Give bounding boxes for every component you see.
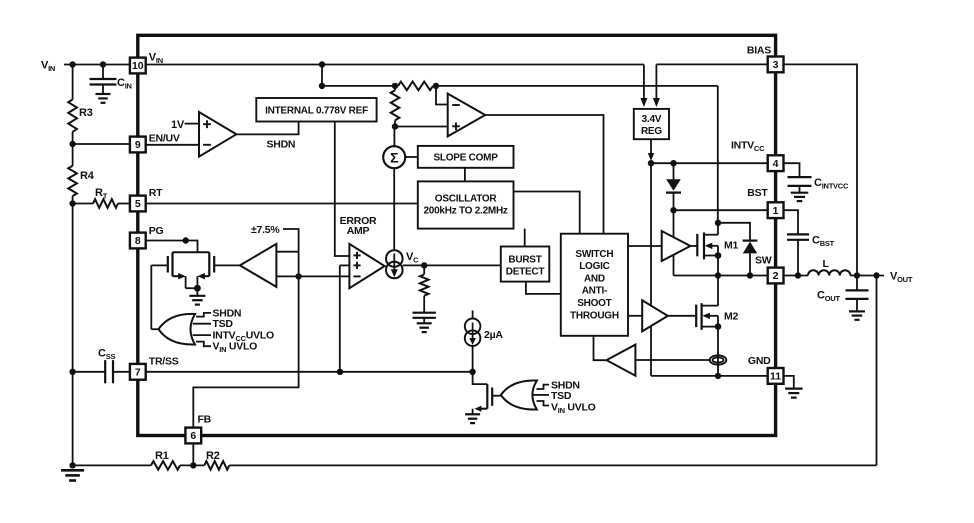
wire driver M2 to GND bbox=[650, 326, 652, 376]
wire pin 9 to comparator bbox=[146, 144, 199, 146]
capacitor VC compensation bbox=[413, 296, 436, 323]
wire sigma to slope comp bbox=[405, 156, 418, 158]
wire VOUT sense riser bbox=[876, 276, 878, 466]
wire pin 5 RT to oscillator bbox=[146, 203, 418, 205]
svg-text:M2: M2 bbox=[724, 311, 738, 323]
label VC bbox=[406, 251, 419, 265]
svg-text:4: 4 bbox=[773, 158, 779, 170]
wire BIAS to VOUT bbox=[784, 64, 858, 275]
label TSD fault bbox=[213, 318, 234, 330]
wire SHDN input bbox=[196, 313, 211, 317]
label pin BST bbox=[747, 187, 768, 199]
label L bbox=[823, 258, 830, 270]
wire sense rail to M1 drain bbox=[717, 86, 719, 223]
svg-text:SHDN: SHDN bbox=[267, 139, 296, 151]
op-amp error amplifier bbox=[349, 244, 384, 288]
junction EN divider bbox=[69, 141, 75, 147]
wire VIN rail bbox=[146, 64, 644, 66]
junction sense res top bbox=[392, 83, 398, 89]
pin 7 TR/SS bbox=[130, 364, 146, 380]
or-gate clamp fault bbox=[501, 380, 537, 409]
label R1 bbox=[155, 450, 169, 462]
resistor VC compensation bbox=[420, 265, 429, 295]
svg-text:SW: SW bbox=[755, 255, 772, 267]
resistor sense divider bbox=[391, 86, 400, 127]
wire sense amp to switch logic bbox=[594, 336, 607, 360]
wire CSS to pin 7 bbox=[113, 371, 130, 373]
wire oscillator to switch logic bbox=[514, 192, 580, 234]
junction slope sum node bbox=[392, 123, 398, 129]
svg-text:7: 7 bbox=[135, 366, 141, 378]
summer sigma bbox=[383, 146, 405, 168]
label CINTVCC bbox=[814, 177, 849, 191]
svg-text:LOGIC: LOGIC bbox=[579, 261, 609, 272]
wire M1 body diode top bbox=[718, 223, 750, 240]
svg-text:6: 6 bbox=[190, 430, 196, 442]
comparator EN/UV bbox=[199, 112, 236, 157]
label R3 bbox=[79, 107, 93, 119]
svg-text:BST: BST bbox=[747, 187, 768, 199]
wire VIN input bbox=[64, 64, 130, 66]
svg-text:GND: GND bbox=[748, 355, 771, 367]
label SHDN fault bbox=[213, 307, 242, 319]
label SW bbox=[755, 255, 772, 267]
svg-text:Σ: Σ bbox=[390, 150, 398, 166]
junction SW M1M2 bbox=[715, 272, 721, 278]
wire sigma to VC source bbox=[393, 168, 395, 250]
wire BIAS to regulator bbox=[653, 64, 768, 107]
block SLOPE COMP bbox=[418, 146, 514, 168]
wire clamp SHDN input bbox=[537, 385, 550, 389]
svg-text:8: 8 bbox=[135, 235, 141, 247]
wire INTVCC UVLO input bbox=[193, 334, 211, 336]
block OSCILLATOR bbox=[418, 181, 514, 228]
svg-text:R3: R3 bbox=[79, 107, 93, 119]
pin 2 SW bbox=[768, 268, 784, 284]
or-gate PG fault bbox=[159, 314, 196, 345]
label pin INTVCC bbox=[731, 140, 765, 154]
current source VC output bbox=[386, 250, 403, 278]
wire BST bbox=[674, 209, 768, 211]
svg-text:INTERNAL 0.778V REF: INTERNAL 0.778V REF bbox=[265, 106, 368, 117]
svg-text:SLOPE COMP: SLOPE COMP bbox=[434, 153, 499, 164]
wire INTVCC to driver M2 bbox=[650, 163, 652, 305]
wire burst detect to switch logic bbox=[526, 282, 561, 294]
pin 1 BST bbox=[768, 202, 784, 218]
junction TRSS erroramp bbox=[337, 369, 343, 375]
svg-text:10: 10 bbox=[132, 60, 144, 72]
pin 5 RT bbox=[130, 196, 146, 212]
wire fb junction riser bbox=[298, 252, 300, 277]
junction CSS bbox=[69, 369, 75, 375]
pin 8 PG bbox=[130, 233, 146, 249]
ground discharge NMOS bbox=[465, 414, 480, 423]
svg-text:ANTI-: ANTI- bbox=[582, 286, 607, 297]
wire TSD input bbox=[193, 323, 211, 325]
svg-text:2µA: 2µA bbox=[484, 329, 503, 341]
transistor discharge NMOS bbox=[473, 372, 493, 414]
wire comp minus bbox=[436, 86, 448, 105]
current source 2uA bbox=[465, 311, 481, 347]
ground pin11 bbox=[785, 389, 803, 398]
capacitor COUT bbox=[846, 276, 869, 311]
wire fb to error amp bbox=[299, 275, 350, 277]
wire trss to error amp bbox=[340, 265, 350, 371]
resistor RT bbox=[93, 199, 118, 208]
wire regulator output bbox=[648, 139, 654, 161]
junction INTVCC rail bbox=[648, 160, 654, 166]
svg-text:3.4V: 3.4V bbox=[642, 114, 662, 125]
svg-text:±7.5%: ±7.5% bbox=[251, 224, 280, 236]
junction VIN rail jumper top bbox=[319, 61, 325, 67]
svg-text:DETECT: DETECT bbox=[506, 267, 545, 278]
label pin GND bbox=[748, 355, 771, 367]
junction VC bbox=[421, 262, 427, 268]
svg-text:2: 2 bbox=[773, 270, 779, 282]
junction M1 drain bbox=[715, 220, 721, 226]
label pin VIN bbox=[149, 52, 163, 66]
svg-text:PG: PG bbox=[149, 225, 164, 237]
junction sense rail left bbox=[319, 83, 325, 89]
label pin RT bbox=[149, 187, 163, 199]
wire INTVCC bbox=[651, 162, 768, 164]
wire CSS left bbox=[73, 371, 106, 373]
junction VOUT bbox=[854, 272, 860, 278]
junction M2 source bbox=[715, 323, 722, 330]
pin 6 FB bbox=[185, 428, 201, 444]
wire BST to driver M1 bbox=[673, 210, 675, 237]
wire TRSS bbox=[146, 371, 473, 373]
label clamp SHDN bbox=[551, 380, 580, 392]
wire SW out bbox=[784, 275, 885, 277]
label R4 bbox=[80, 170, 95, 182]
wire 7.5% reference bbox=[276, 229, 298, 252]
junction VIN/CIN bbox=[100, 61, 106, 67]
svg-text:OSCILLATOR: OSCILLATOR bbox=[435, 194, 498, 205]
wire 2uA to TRSS bbox=[472, 346, 474, 372]
wire VIN to regulator bbox=[640, 65, 647, 108]
junction bottom-left ground bbox=[69, 462, 75, 468]
wire R1 to FB node bbox=[180, 464, 204, 466]
label pin FB bbox=[198, 414, 212, 426]
label CSS bbox=[98, 348, 115, 362]
wire R2 to VOUT sense bbox=[229, 464, 876, 466]
label CBST bbox=[812, 235, 835, 249]
wire CBST to SW bbox=[797, 240, 799, 276]
junction GND M2 bbox=[715, 373, 721, 379]
node VIN input label bbox=[41, 60, 55, 74]
svg-text:BIAS: BIAS bbox=[747, 45, 771, 57]
svg-text:AND: AND bbox=[584, 273, 605, 284]
amplifier driver M1 bbox=[662, 231, 691, 261]
svg-text:9: 9 bbox=[135, 139, 141, 151]
junction SW CBST bbox=[795, 272, 801, 278]
wire SW bbox=[674, 275, 768, 277]
junction VIN/R3 bbox=[69, 61, 75, 67]
svg-text:M1: M1 bbox=[724, 240, 738, 252]
wire left rail upper bbox=[72, 65, 74, 100]
junction M1 source bbox=[715, 252, 722, 259]
wire M1 gate bbox=[690, 245, 697, 247]
label VOUT bbox=[890, 271, 913, 285]
wire pin 8 PG bbox=[146, 240, 186, 242]
wire SHDN out bbox=[236, 122, 298, 135]
wire driver M1 to SW bbox=[673, 255, 675, 276]
ground VC compensation bbox=[417, 323, 432, 332]
ground bottom-left bbox=[61, 470, 84, 480]
svg-text:RT: RT bbox=[149, 187, 163, 199]
wire fb net down bbox=[193, 276, 298, 427]
wire RT resistor to pin 5 bbox=[118, 203, 130, 205]
wire PG gate lead left bbox=[151, 265, 168, 329]
wire clamp VIN UVLO input bbox=[537, 401, 550, 406]
label R2 bbox=[206, 450, 220, 462]
svg-text:R4: R4 bbox=[80, 170, 95, 182]
wire RT node to RT resistor bbox=[73, 203, 93, 205]
label VIN UVLO bbox=[213, 341, 258, 355]
transistor PG pair bbox=[168, 252, 214, 288]
wire left rail lower bbox=[72, 204, 74, 466]
junction sense comp minus bbox=[433, 83, 439, 89]
svg-text:TSD: TSD bbox=[551, 390, 572, 402]
label 1V bbox=[171, 119, 185, 131]
wire clamp gate bbox=[492, 395, 501, 397]
amplifier driver M2 bbox=[642, 300, 668, 331]
diode M1 body bbox=[743, 241, 758, 276]
label INTVCC UVLO bbox=[213, 330, 275, 344]
diode boost bbox=[666, 163, 681, 210]
label +/-7.5% bbox=[251, 224, 280, 236]
label COUT bbox=[817, 290, 840, 304]
capacitor CINTVCC bbox=[788, 177, 812, 201]
junction boost diode bbox=[670, 160, 676, 166]
svg-text:VIN​ UVLO: VIN​ UVLO bbox=[551, 401, 596, 415]
wire ref to error amp bbox=[335, 122, 350, 257]
svg-text:R2: R2 bbox=[206, 450, 220, 462]
junction RT node bbox=[69, 200, 75, 206]
wire EN divider to pin 9 bbox=[73, 143, 130, 145]
resistor R3 bbox=[68, 100, 77, 132]
svg-text:EN/UV: EN/UV bbox=[149, 133, 180, 145]
svg-text:REG: REG bbox=[641, 126, 662, 137]
wire sense rail bbox=[322, 85, 718, 87]
resistor R2 bbox=[204, 461, 229, 470]
capacitor CBST bbox=[787, 234, 809, 239]
ground COUT bbox=[849, 311, 865, 319]
wire FB pin stem bbox=[192, 443, 194, 465]
svg-text:11: 11 bbox=[770, 371, 781, 383]
pin 4 INTVCC bbox=[768, 155, 784, 171]
svg-text:L: L bbox=[823, 258, 830, 270]
block 3.4V REG bbox=[634, 109, 669, 139]
label 2uA bbox=[484, 329, 503, 341]
label pin PG bbox=[149, 225, 164, 237]
capacitor CIN bbox=[90, 65, 117, 103]
svg-text:THROUGH: THROUGH bbox=[570, 310, 619, 321]
junction PG threshold bbox=[295, 273, 301, 279]
wire switch logic to driver M1 bbox=[628, 245, 662, 247]
wire VC node bbox=[403, 264, 501, 266]
junction VOUT feedback bbox=[873, 272, 879, 278]
label CIN bbox=[117, 77, 132, 91]
ground PG pair bbox=[189, 288, 205, 304]
wire jumper VIN to sense bbox=[321, 65, 323, 86]
wire R3 to R4 bbox=[72, 132, 74, 166]
svg-text:3: 3 bbox=[773, 59, 779, 71]
wire slope node to sigma bbox=[393, 127, 395, 147]
capacitor CSS bbox=[105, 360, 113, 383]
wire PG to transistor pair bbox=[186, 241, 198, 253]
junction FB divider bbox=[190, 462, 196, 468]
svg-text:SWITCH: SWITCH bbox=[575, 249, 613, 260]
wire comp plus bbox=[395, 126, 448, 128]
block SWITCH LOGIC AND ANTI-SHOOT THROUGH bbox=[561, 234, 628, 336]
pin 10 VIN bbox=[130, 58, 146, 74]
wire M2 sense to GND bbox=[717, 355, 719, 376]
wire clamp TSD input bbox=[534, 394, 550, 396]
label RT resistor bbox=[95, 187, 108, 201]
transistor M1 bbox=[697, 223, 718, 276]
wire pin1 to CBST bbox=[784, 210, 799, 234]
IC boundary box bbox=[138, 35, 776, 435]
wire pin4 to CINTVCC bbox=[784, 163, 800, 177]
svg-text:5: 5 bbox=[135, 198, 141, 210]
label ERROR AMP bbox=[340, 215, 377, 237]
block BURST DETECT bbox=[501, 247, 550, 282]
svg-text:200kHz TO 2.2MHz: 200kHz TO 2.2MHz bbox=[424, 206, 508, 217]
wire switch logic to driver M2 bbox=[628, 315, 642, 317]
resistor R1 bbox=[151, 461, 180, 470]
wire pin11 ground bbox=[784, 376, 794, 388]
svg-text:TR/SS: TR/SS bbox=[149, 356, 179, 368]
wire oscillator to burst detect bbox=[524, 229, 526, 247]
label pin TR/SS bbox=[149, 356, 179, 368]
pin 11 GND bbox=[768, 368, 784, 384]
pin 3 BIAS bbox=[768, 57, 784, 73]
wire VIN UVLO input bbox=[196, 342, 211, 347]
junction TRSS clamp bbox=[469, 369, 475, 375]
wire comparator to switch logic bbox=[485, 115, 603, 234]
label pin BIAS bbox=[747, 45, 771, 57]
comparator PG bbox=[240, 244, 277, 287]
wire M2 gate bbox=[668, 315, 696, 317]
label M2 bbox=[724, 311, 738, 323]
wire 1V to comparator bbox=[185, 123, 199, 125]
svg-text:VIN​ UVLO: VIN​ UVLO bbox=[213, 341, 258, 355]
inductor L bbox=[808, 270, 850, 275]
transistor M2 bbox=[696, 276, 718, 356]
svg-text:FB: FB bbox=[198, 414, 212, 426]
wire sense to amp bbox=[635, 359, 709, 361]
junction PG source bbox=[194, 285, 201, 292]
wire PG gate lead right bbox=[214, 264, 240, 266]
comparator current sense bbox=[448, 94, 486, 137]
block INTERNAL 0.778V REF bbox=[256, 98, 376, 122]
wire bottom to R1 bbox=[73, 464, 151, 466]
svg-text:AMP: AMP bbox=[347, 225, 370, 237]
resistor current sense bbox=[398, 82, 433, 91]
label M1 bbox=[724, 240, 738, 252]
wire R4 to RT node bbox=[72, 196, 74, 204]
label SHDN bbox=[267, 139, 296, 151]
pin 9 EN/UV bbox=[130, 137, 146, 153]
sensor M2 current bbox=[710, 355, 727, 364]
wire GND rail bbox=[651, 375, 768, 377]
resistor R4 bbox=[68, 166, 77, 196]
junction PG bbox=[183, 237, 189, 243]
junction SW diode bbox=[747, 272, 753, 278]
svg-text:TSD: TSD bbox=[213, 318, 234, 330]
label EN/UV bbox=[149, 133, 180, 145]
wire PG comp input lower bbox=[276, 275, 298, 277]
svg-text:1: 1 bbox=[773, 205, 779, 217]
svg-text:BURST: BURST bbox=[508, 255, 541, 266]
svg-text:SHOOT: SHOOT bbox=[577, 298, 611, 309]
amplifier current sense bbox=[607, 345, 636, 376]
svg-text:1V: 1V bbox=[171, 119, 185, 131]
svg-text:R1: R1 bbox=[155, 450, 169, 462]
wire slope comp to oscillator bbox=[464, 168, 466, 182]
junction BST rail bbox=[670, 207, 676, 213]
label clamp TSD bbox=[551, 390, 572, 402]
label clamp VIN UVLO bbox=[551, 401, 596, 415]
